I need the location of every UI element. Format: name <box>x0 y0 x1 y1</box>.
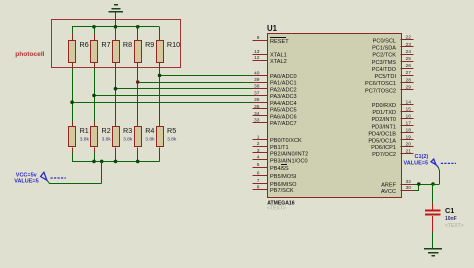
svg-text:R9: R9 <box>145 40 154 49</box>
svg-text:32: 32 <box>406 179 412 185</box>
svg-text:PA7/ADC7: PA7/ADC7 <box>270 121 297 127</box>
svg-text:PA5/ADC5: PA5/ADC5 <box>270 108 297 114</box>
svg-text:3.8k: 3.8k <box>145 137 155 143</box>
svg-text:PB6/MISO: PB6/MISO <box>270 182 297 188</box>
svg-text:PC6/TOSC1: PC6/TOSC1 <box>365 81 396 87</box>
svg-text:37: 37 <box>254 90 260 96</box>
svg-text:R1: R1 <box>80 126 89 135</box>
wire divider node column 1 to PA4 <box>72 68 252 122</box>
svg-text:14: 14 <box>406 99 412 105</box>
svg-text:40: 40 <box>254 70 260 76</box>
svg-text:PD4/OC1B: PD4/OC1B <box>368 131 396 137</box>
svg-text:PB0/T0/XCK: PB0/T0/XCK <box>270 138 302 144</box>
svg-text:C1: C1 <box>445 206 454 215</box>
pin 28 (PC6/TOSC1) <box>365 77 413 87</box>
svg-text:PA3/ADC3: PA3/ADC3 <box>270 94 297 100</box>
svg-text:AVCC: AVCC <box>381 189 396 195</box>
pin 15 (PD1/TXD) <box>372 106 413 116</box>
svg-text:R3: R3 <box>123 126 132 135</box>
resistor R1 3.8k <box>69 121 90 161</box>
svg-text:PB1/T1: PB1/T1 <box>270 145 289 151</box>
ground (bottom) <box>424 249 442 256</box>
svg-text:2: 2 <box>257 141 260 147</box>
power terminal C1(2) VALUE=5 <box>404 154 457 167</box>
junction bottom bus / R2 <box>92 160 96 164</box>
svg-text:XTAL2: XTAL2 <box>270 59 287 65</box>
pin 36 (PA4/ADC4) <box>253 97 297 107</box>
svg-text:16: 16 <box>406 113 412 119</box>
pin 7 (PB6/MISO) <box>253 178 298 188</box>
pin 14 (PD0/RXD) <box>372 99 414 109</box>
svg-text:PD5/OC1A: PD5/OC1A <box>368 138 396 144</box>
svg-text:PB5/MOSI: PB5/MOSI <box>270 174 297 180</box>
svg-text:PA1/ADC1: PA1/ADC1 <box>270 81 297 87</box>
wire bottom bus (VCC net) <box>72 161 159 163</box>
svg-text:34: 34 <box>254 111 260 117</box>
svg-text:28: 28 <box>406 77 412 83</box>
svg-text:R4: R4 <box>145 126 154 135</box>
svg-text:PC7/TOSC2: PC7/TOSC2 <box>365 89 396 95</box>
pin 19 (PD5/OC1A) <box>368 135 413 145</box>
pin 13 (XTAL1) <box>253 49 287 59</box>
svg-text:R10: R10 <box>167 40 180 49</box>
pin 29 (PC7/TOSC2) <box>365 85 413 95</box>
junction column 1 tap <box>70 100 74 104</box>
svg-text:PC4/TDO: PC4/TDO <box>372 67 397 73</box>
svg-text:5: 5 <box>257 162 260 168</box>
resistor R4 3.8k <box>135 121 156 161</box>
wire divider node column 2 to PA3 <box>94 68 253 122</box>
svg-text:4: 4 <box>257 155 260 161</box>
svg-text:R8: R8 <box>123 40 132 49</box>
resistor R10 (photocell) <box>157 27 181 68</box>
pin 6 (PB5/MOSI) <box>253 170 297 180</box>
pin 30 (AVCC) <box>381 185 414 195</box>
svg-text:17: 17 <box>406 121 412 127</box>
wire divider node column 3 to PA2 <box>116 68 253 122</box>
svg-text:13: 13 <box>254 49 260 55</box>
svg-text:PC2/TCK: PC2/TCK <box>372 53 396 59</box>
svg-text:9: 9 <box>257 35 260 41</box>
pin 1 (PB0/T0/XCK) <box>253 134 302 144</box>
svg-text:21: 21 <box>406 148 412 154</box>
capacitor C1 10nF <box>425 204 464 232</box>
junction bottom bus / VCC tap <box>100 160 104 164</box>
svg-text:VALUE=5: VALUE=5 <box>14 178 39 184</box>
svg-text:PC0/SCL: PC0/SCL <box>373 39 396 45</box>
resistor R7 (photocell) <box>91 27 111 68</box>
svg-text:PD3/INT1: PD3/INT1 <box>371 124 396 130</box>
junction bottom bus / R4 <box>136 160 140 164</box>
junction top bus / ground <box>114 25 118 29</box>
svg-text:PB3/AIN1/OC0: PB3/AIN1/OC0 <box>270 158 308 164</box>
wire power terminal arm <box>433 167 440 184</box>
pin 9 (RESET) <box>253 35 290 45</box>
svg-text:C1(2): C1(2) <box>415 154 429 160</box>
junction top bus / R7 <box>92 25 96 29</box>
svg-text:PC1/SDA: PC1/SDA <box>372 46 396 52</box>
svg-text:18: 18 <box>406 128 412 134</box>
resistor R8 (photocell) <box>113 27 133 68</box>
svg-text:VALUE=5: VALUE=5 <box>404 161 429 167</box>
svg-text:3.8k: 3.8k <box>80 137 90 143</box>
wire AREF net down to C1 <box>432 184 434 204</box>
pin 20 (PD6/ICP1) <box>371 141 413 151</box>
svg-text:23: 23 <box>406 42 412 48</box>
wire divider node column 4 to PA1 <box>138 68 253 122</box>
svg-text:10nF: 10nF <box>445 216 457 222</box>
pin 40 (PA0/ADC0) <box>253 70 297 80</box>
svg-text:RESET: RESET <box>270 39 289 45</box>
pin 4 (PB3/AIN1/OC0) <box>253 155 308 165</box>
svg-text:XTAL1: XTAL1 <box>270 53 287 59</box>
ground (top) <box>108 5 123 27</box>
wire AREF net <box>414 184 434 186</box>
pin 8 (PB7/SCK) <box>253 184 294 194</box>
svg-text:7: 7 <box>257 178 260 184</box>
svg-text:19: 19 <box>406 135 412 141</box>
svg-text:20: 20 <box>406 141 412 147</box>
junction column 5 tap <box>158 74 162 78</box>
svg-text:1: 1 <box>257 134 260 140</box>
svg-text:PD0/RXD: PD0/RXD <box>372 103 396 109</box>
svg-text:33: 33 <box>254 117 260 123</box>
wire VCC terminal to bottom bus <box>49 161 102 183</box>
photocell subcircuit box <box>52 20 181 68</box>
svg-text:39: 39 <box>254 77 260 83</box>
pin 2 (PB1/T1) <box>253 141 289 151</box>
svg-text:PA6/ADC6: PA6/ADC6 <box>270 115 297 121</box>
svg-text:PB2/AIN0/INT2: PB2/AIN0/INT2 <box>270 152 308 158</box>
pin 23 (PC1/SDA) <box>372 42 413 52</box>
svg-text:R7: R7 <box>101 40 110 49</box>
pin 25 (PC3/TMS) <box>372 56 414 66</box>
pin 39 (PA1/ADC1) <box>253 77 297 87</box>
svg-text:35: 35 <box>254 104 260 110</box>
pin 17 (PD3/INT1) <box>371 121 413 131</box>
svg-text:27: 27 <box>406 70 412 76</box>
svg-text:PA2/ADC2: PA2/ADC2 <box>270 87 297 93</box>
junction column 3 tap <box>114 87 118 91</box>
wire AVCC to AREF net <box>414 184 419 191</box>
svg-text:25: 25 <box>406 56 412 62</box>
pin 3 (PB2/AIN0/INT2) <box>253 148 309 158</box>
svg-text:PA0/ADC0: PA0/ADC0 <box>270 74 297 80</box>
svg-text:U1: U1 <box>267 24 278 33</box>
svg-text:3.8k: 3.8k <box>167 137 177 143</box>
svg-text:PB7/SCK: PB7/SCK <box>270 188 294 194</box>
svg-text:22: 22 <box>406 35 412 41</box>
svg-text:PA4/ADC4: PA4/ADC4 <box>270 101 297 107</box>
svg-text:SS: SS <box>281 166 289 172</box>
resistor R3 3.8k <box>113 121 133 161</box>
svg-text:6: 6 <box>257 170 260 176</box>
svg-text:36: 36 <box>254 97 260 103</box>
svg-text:38: 38 <box>254 84 260 90</box>
junction AREF/C1/power <box>431 182 435 186</box>
svg-text:30: 30 <box>406 185 412 191</box>
pin 16 (PD2/INT0) <box>371 113 413 123</box>
wire top bus (ground net) <box>72 26 159 28</box>
pin 33 (PA7/ADC7) <box>253 117 297 127</box>
svg-text:PC3/TMS: PC3/TMS <box>372 60 397 66</box>
resistor R5 3.8k <box>157 121 177 161</box>
svg-text:AREF: AREF <box>381 183 397 189</box>
junction AVCC/AREF <box>417 182 421 186</box>
svg-text:15: 15 <box>406 106 412 112</box>
svg-text:24: 24 <box>406 49 412 55</box>
power terminal VCC=5v <box>14 172 66 184</box>
pin 18 (PD4/OC1B) <box>368 128 413 138</box>
pin 22 (PC0/SCL) <box>373 35 414 45</box>
junction column 2 tap <box>92 94 96 98</box>
svg-text:PD1/TXD: PD1/TXD <box>372 110 396 116</box>
svg-text:<TEXT>: <TEXT> <box>445 223 464 229</box>
pin 34 (PA6/ADC6) <box>253 111 297 121</box>
pin 32 (AREF) <box>381 179 413 189</box>
svg-text:R2: R2 <box>102 126 111 135</box>
svg-text:PD6/ICP1: PD6/ICP1 <box>371 145 396 151</box>
chip U1 ATMEGA16 body <box>268 34 402 198</box>
svg-text:photocell: photocell <box>15 51 44 58</box>
svg-text:8: 8 <box>257 184 260 190</box>
pin 37 (PA3/ADC3) <box>253 90 297 100</box>
resistor R9 (photocell) <box>135 27 155 68</box>
svg-text:26: 26 <box>406 63 412 69</box>
svg-text:3: 3 <box>257 148 260 154</box>
svg-text:PD7/OC2: PD7/OC2 <box>372 152 396 158</box>
pin 35 (PA5/ADC5) <box>253 104 297 114</box>
svg-text:12: 12 <box>254 55 260 61</box>
svg-text:PD2/INT0: PD2/INT0 <box>371 117 396 123</box>
svg-text:3.8k: 3.8k <box>102 137 112 143</box>
pin 21 (PD7/OC2) <box>372 148 413 158</box>
svg-text:PC5/TDI: PC5/TDI <box>375 74 397 80</box>
pin 5 (PB4/SS) <box>253 162 289 172</box>
pin 12 (XTAL2) <box>253 55 287 65</box>
svg-text:R5: R5 <box>167 126 176 135</box>
svg-text:<TEXT>: <TEXT> <box>267 205 286 211</box>
pin 27 (PC5/TDI) <box>375 70 414 80</box>
junction top bus / R9 <box>136 25 140 29</box>
pin 24 (PC2/TCK) <box>372 49 413 59</box>
wire divider node column 5 to PA0 <box>160 68 253 122</box>
svg-text:3.8k: 3.8k <box>123 137 133 143</box>
pin 38 (PA2/ADC2) <box>253 84 297 94</box>
pin 26 (PC4/TDO) <box>372 63 414 73</box>
resistor R6 (photocell) <box>69 27 89 68</box>
junction bottom bus / R3 <box>114 160 118 164</box>
junction column 4 tap <box>136 80 140 84</box>
svg-text:R6: R6 <box>80 40 89 49</box>
svg-text:29: 29 <box>406 85 412 91</box>
wire C1 to ground <box>432 232 434 249</box>
resistor R2 3.8k <box>91 121 112 161</box>
